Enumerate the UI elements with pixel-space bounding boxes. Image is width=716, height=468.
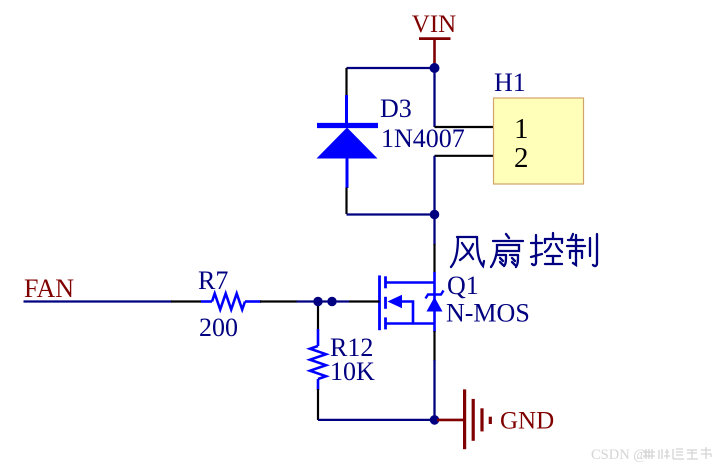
node drain junction — [430, 210, 440, 220]
svg-text:CSDN @: CSDN @ — [591, 447, 647, 463]
transistor Q1 source pin — [433, 331, 435, 361]
svg-text:R7: R7 — [198, 266, 228, 295]
ground GND symbol — [437, 389, 490, 449]
wire drain node down — [433, 215, 435, 246]
resistor R7 right pin — [260, 300, 297, 302]
connector H1 pin 1 — [435, 126, 494, 128]
watermark CSDN — [591, 447, 711, 463]
label fan control chinese — [451, 233, 597, 267]
junction dot left — [313, 297, 322, 306]
wire R7 to gate — [297, 300, 350, 302]
transistor Q1 drain pin — [433, 244, 435, 273]
junction dot right — [327, 297, 336, 306]
wire source to ground node — [433, 360, 435, 420]
svg-text:2: 2 — [514, 142, 529, 174]
wire diode bottom to drain node — [347, 213, 435, 215]
shan — [506, 234, 509, 238]
diode D3 symbol — [317, 95, 379, 188]
svg-text:200: 200 — [199, 313, 238, 342]
transistor Q1 N-MOS symbol — [380, 272, 444, 332]
connector H1 pin 2 — [435, 155, 494, 157]
feng — [451, 237, 458, 267]
node VIN junction — [430, 63, 440, 73]
svg-text:VIN: VIN — [412, 11, 456, 38]
resistor R7 symbol — [201, 294, 261, 310]
svg-text:H1: H1 — [494, 68, 526, 97]
power port VIN — [412, 11, 456, 66]
resistor R12 bottom pin — [317, 389, 319, 420]
svg-text:FAN: FAN — [24, 274, 74, 303]
svg-text:1N4007: 1N4007 — [381, 124, 465, 153]
wire FAN to R7 — [24, 300, 173, 302]
node ground junction — [430, 415, 440, 425]
transistor Q1 gate pin — [349, 300, 380, 302]
svg-text:10K: 10K — [330, 357, 375, 386]
svg-text:GND: GND — [500, 408, 554, 435]
diode D3 top pin — [345, 68, 347, 97]
svg-text:1: 1 — [514, 113, 529, 145]
resistor R7 left pin — [171, 300, 202, 302]
svg-text:N-MOS: N-MOS — [446, 299, 530, 328]
connector H1 body — [494, 98, 584, 184]
resistor R12 top pin — [317, 302, 319, 331]
wire R12 bottom to ground node — [318, 419, 435, 421]
wire VIN node to diode top corner — [347, 67, 435, 69]
wire H1 pin 2 down to drain node — [433, 156, 435, 215]
svg-text:Q1: Q1 — [447, 271, 479, 300]
wire VIN node down to H1 pin 1 — [433, 68, 435, 127]
svg-text:D3: D3 — [380, 94, 412, 123]
kong — [532, 235, 536, 265]
resistor R12 symbol — [310, 329, 326, 390]
diode D3 bottom pin — [345, 188, 347, 215]
zhi — [571, 234, 573, 239]
